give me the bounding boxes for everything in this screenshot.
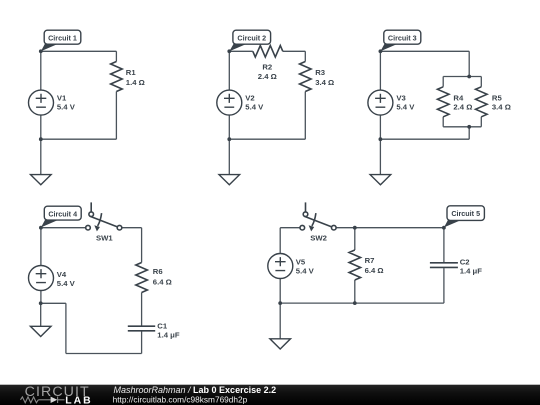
svg-text:SW1: SW1 — [96, 233, 113, 242]
svg-text:V4: V4 — [57, 270, 67, 279]
svg-text:SW2: SW2 — [310, 233, 327, 242]
svg-text:2.4 Ω: 2.4 Ω — [453, 103, 472, 112]
svg-text:Circuit 3: Circuit 3 — [388, 33, 417, 42]
svg-text:1.4 μF: 1.4 μF — [460, 266, 483, 275]
svg-text:V3: V3 — [396, 93, 405, 102]
svg-text:5.4 V: 5.4 V — [57, 279, 76, 288]
svg-text:R3: R3 — [315, 68, 325, 77]
svg-text:R4: R4 — [453, 94, 464, 103]
svg-text:1.4 μF: 1.4 μF — [157, 331, 180, 340]
svg-text:V1: V1 — [57, 93, 67, 102]
svg-text:Circuit 2: Circuit 2 — [237, 33, 266, 42]
svg-text:R1: R1 — [126, 68, 137, 77]
svg-text:R2: R2 — [262, 63, 272, 72]
svg-text:C2: C2 — [460, 257, 470, 266]
svg-text:Circuit 4: Circuit 4 — [48, 209, 77, 218]
svg-text:1.4 Ω: 1.4 Ω — [126, 78, 145, 87]
svg-text:V2: V2 — [245, 93, 254, 102]
svg-text:http://circuitlab.com/c98ksm76: http://circuitlab.com/c98ksm769dh2p — [113, 395, 248, 405]
svg-text:R6: R6 — [153, 267, 163, 276]
svg-text:5.4 V: 5.4 V — [396, 102, 415, 111]
svg-text:Circuit 1: Circuit 1 — [48, 33, 77, 42]
svg-text:R5: R5 — [492, 94, 503, 103]
svg-text:5.4 V: 5.4 V — [57, 102, 76, 111]
svg-text:2.4 Ω: 2.4 Ω — [258, 72, 277, 81]
svg-text:5.4 V: 5.4 V — [245, 102, 264, 111]
svg-text:C1: C1 — [157, 321, 168, 330]
svg-text:6.4 Ω: 6.4 Ω — [365, 266, 384, 275]
svg-text:V5: V5 — [296, 257, 306, 266]
svg-text:3.4 Ω: 3.4 Ω — [315, 78, 334, 87]
svg-text:LAB: LAB — [65, 396, 92, 405]
svg-text:Circuit 5: Circuit 5 — [451, 209, 480, 218]
svg-text:3.4 Ω: 3.4 Ω — [492, 103, 511, 112]
svg-text:6.4 Ω: 6.4 Ω — [153, 277, 172, 286]
svg-text:R7: R7 — [365, 256, 375, 265]
svg-text:MashroorRahman / Lab 0 Excerci: MashroorRahman / Lab 0 Excercise 2.2 — [114, 385, 277, 395]
svg-text:5.4 V: 5.4 V — [296, 266, 315, 275]
